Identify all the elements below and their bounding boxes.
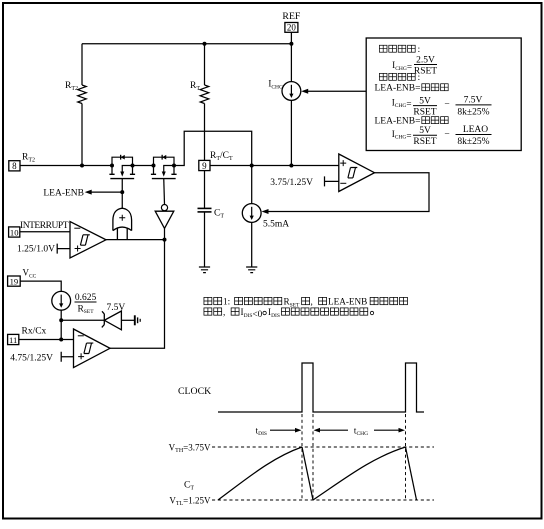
CT discharge 2	[406, 447, 417, 500]
current source 5.5mA	[251, 166, 253, 204]
svg-text:2.5V: 2.5V	[416, 55, 435, 65]
pin 19 box	[8, 276, 21, 286]
svg-text:LEAO: LEAO	[463, 125, 488, 135]
dashed VTL line	[212, 499, 434, 501]
node zener tap	[59, 318, 63, 322]
wire top horizontal REF bus	[82, 43, 291, 45]
source/drain stubs	[153, 166, 155, 174]
comparator U6 triangle	[74, 329, 111, 368]
wire pin9 down to CT	[204, 171, 206, 208]
wire inverter input	[164, 228, 166, 239]
pin 9 box	[199, 160, 210, 170]
node RT junction on top bus	[203, 42, 207, 46]
capacitor CT	[198, 207, 212, 209]
pin 8 box	[9, 161, 20, 171]
body diode of transistor at x=163.75	[162, 155, 166, 160]
svg-text:1.25/1.0V: 1.25/1.0V	[17, 245, 55, 255]
svg-text::: :	[418, 44, 421, 54]
pin 20 box	[285, 23, 298, 33]
source/drain stubs	[111, 166, 113, 174]
current source 0.625/RSET	[52, 291, 71, 310]
node current source junction	[59, 338, 63, 342]
note box text	[375, 44, 492, 147]
wire ICHG bottom lead	[290, 100, 292, 165]
node ICHG branch	[289, 164, 293, 168]
comparator U1 triangle	[339, 154, 375, 192]
svg-text:−: −	[444, 100, 449, 110]
arrow tCHG right	[374, 429, 401, 431]
wire body-diode loop	[154, 157, 175, 165]
wire pin8 to mosfet Q1	[20, 165, 112, 167]
arrow tCHG left	[318, 429, 348, 431]
timing dashed verticals	[302, 414, 406, 500]
channel bar	[110, 178, 134, 180]
svg-text:7.5V: 7.5V	[107, 303, 126, 313]
wire REF lead down	[290, 32, 292, 81]
current source ICHG	[282, 82, 301, 101]
wire to zener D1	[61, 319, 104, 321]
node 5.5mA branch	[250, 164, 254, 168]
wire pin11 to comparator U6	[19, 339, 74, 341]
svg-text:11: 11	[9, 335, 17, 345]
wire U1 output loop to 5.5mA source	[266, 173, 429, 212]
svg-text:10: 10	[10, 227, 19, 237]
svg-text:19: 19	[10, 277, 19, 287]
channel bar	[152, 178, 176, 180]
resistor RT	[204, 44, 206, 85]
svg-text:1:: 1:	[223, 297, 230, 307]
ground	[246, 267, 257, 273]
bulk connection with arrow	[164, 166, 174, 173]
wire pin9 to comparator U1	[210, 165, 339, 167]
svg-text:9: 9	[202, 161, 207, 171]
zener diode D1 7.5V	[104, 311, 121, 330]
arrow tDIS	[270, 429, 297, 431]
wire zener to chassis ground	[121, 319, 134, 321]
pin 10 box	[9, 227, 20, 237]
pin 11 box	[8, 334, 19, 344]
wire 5.5mA to ground	[251, 222, 253, 267]
svg-text:5.5mA: 5.5mA	[263, 220, 289, 230]
svg-text:3.75/1.25V: 3.75/1.25V	[270, 178, 313, 188]
wire ICHG to note box with arrow	[307, 90, 366, 92]
svg-text:4.75/1.25V: 4.75/1.25V	[10, 354, 53, 364]
svg-text:8: 8	[12, 161, 17, 171]
node REF junction	[289, 42, 293, 46]
svg-text:RSET: RSET	[413, 137, 436, 147]
wire gate Q2 to inverter	[163, 179, 166, 205]
wire body-diode loop	[112, 157, 133, 165]
node inverter input junction	[163, 238, 167, 242]
svg-text:20: 20	[287, 23, 297, 33]
wire 4.75/1.25V ref input	[61, 352, 73, 362]
svg-text:LEA-ENB=: LEA-ENB=	[375, 84, 421, 94]
svg-text:,: ,	[223, 307, 225, 317]
inverter U3	[161, 205, 167, 211]
label + inside or-gate	[119, 215, 125, 221]
wire Q2 to riser	[174, 131, 252, 165]
wire RT2 bottom lead	[81, 104, 83, 166]
wire U4 output to node	[106, 239, 165, 241]
wire pin10 to comparator	[20, 231, 70, 233]
terminal dots	[110, 164, 114, 168]
CT charging curve 2	[313, 447, 406, 500]
or-gate U2 (+)	[113, 208, 132, 239]
svg-text:Rx/Cx: Rx/Cx	[22, 327, 47, 337]
svg-text:CLOCK: CLOCK	[178, 386, 211, 397]
wire RT bottom lead to pin 9	[204, 104, 206, 161]
node RT2 junction	[80, 164, 84, 168]
wire 1.25/1.0V ref input	[57, 244, 70, 254]
CT discharge 1	[302, 447, 313, 500]
wire pin19 to current source	[20, 281, 61, 291]
svg-text:INTERRUPT: INTERRUPT	[20, 221, 69, 231]
note text line 1	[204, 297, 408, 309]
note text line 2	[204, 307, 374, 319]
wire between mosfets	[133, 165, 154, 167]
svg-text:LEA-ENB: LEA-ENB	[328, 297, 367, 307]
wire LEA-ENB arrow	[90, 191, 122, 193]
dashed VTH line	[212, 446, 434, 448]
ground	[199, 267, 210, 273]
bulk connection with arrow	[122, 166, 132, 173]
svg-text:0.625: 0.625	[75, 293, 97, 303]
wire source to zener node	[60, 310, 62, 339]
wire CT to ground	[204, 212, 206, 267]
wire node down to U6 output	[110, 240, 165, 349]
svg-text::: :	[418, 72, 421, 82]
node LEA-ENB tap	[120, 190, 124, 194]
svg-text:8k±25%: 8k±25%	[457, 137, 489, 147]
svg-text:−: −	[444, 129, 449, 139]
wire RT2 top lead	[81, 44, 83, 85]
clock waveform	[218, 363, 424, 412]
chassis ground (rotated)	[134, 315, 136, 325]
wire gate Q1	[121, 179, 123, 209]
resistor RT2	[78, 85, 87, 104]
comparator U4 triangle	[70, 222, 106, 259]
svg-text:,: ,	[311, 297, 313, 307]
svg-text:8k±25%: 8k±25%	[457, 107, 489, 117]
svg-text:REF: REF	[282, 11, 301, 22]
CT charging curve 1	[218, 447, 302, 500]
svg-text:5V: 5V	[419, 96, 431, 106]
svg-text:LEA-ENB=: LEA-ENB=	[375, 117, 421, 127]
wire 3.75/1.25V ref input	[325, 176, 339, 186]
svg-text:5V: 5V	[419, 126, 431, 136]
terminal dots	[152, 164, 156, 168]
svg-text:7.5V: 7.5V	[464, 96, 483, 106]
note box frame	[366, 38, 521, 151]
body diode of transistor at x=122.25	[121, 155, 125, 160]
svg-text:LEA-ENB: LEA-ENB	[43, 188, 84, 198]
